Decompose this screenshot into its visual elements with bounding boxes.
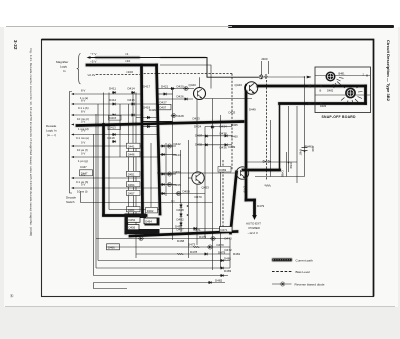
svg-text:D483: D483 bbox=[224, 269, 232, 273]
wire row y=282.5 bbox=[94, 282, 226, 284]
svg-text:Decade: Decade bbox=[66, 196, 76, 200]
svg-text:Switch: Switch bbox=[66, 200, 75, 204]
wire row y=176.5 bbox=[255, 176, 305, 178]
tunnel diode box D452 bbox=[128, 217, 141, 222]
svg-text:D472: D472 bbox=[225, 248, 233, 252]
diode chain on bus x=181: D466 bbox=[180, 204, 183, 208]
diode row D451/D453 bbox=[160, 173, 176, 175]
svg-text:D412: D412 bbox=[109, 98, 117, 102]
diode chain on bus x=181: D467 bbox=[180, 222, 183, 226]
wire row y=228.5 with D467 label bbox=[160, 228, 220, 230]
boxed label D457 bbox=[127, 190, 141, 195]
svg-text:0 V: 0 V bbox=[81, 152, 85, 156]
svg-text:AUTO EXT: AUTO EXT bbox=[246, 222, 261, 226]
svg-text:×1: ×1 bbox=[125, 52, 129, 56]
diode D415 on row c bbox=[112, 114, 116, 117]
svg-text:Q453: Q453 bbox=[202, 186, 210, 190]
svg-text:D441: D441 bbox=[128, 144, 135, 148]
transistor Q420 bbox=[194, 88, 206, 100]
bracket decade group bbox=[70, 92, 73, 194]
wire bus x=286.5 bbox=[286, 152, 288, 177]
svg-text:3-32: 3-32 bbox=[13, 40, 18, 50]
legend reverse biased diode bbox=[272, 283, 292, 285]
wire row y=99 bbox=[157, 98, 193, 100]
current path highlight (halo) bbox=[77, 65, 366, 236]
wire bus x=103.5 bbox=[103, 93, 105, 125]
diode on row y=126.5 mid bbox=[147, 125, 151, 128]
boxed label D441 bbox=[127, 143, 141, 148]
svg-text:D473: D473 bbox=[188, 243, 196, 247]
svg-text:D439: D439 bbox=[229, 145, 236, 149]
wire bus x=197 upper bbox=[196, 99, 198, 172]
tunnel diode box D407 bbox=[159, 104, 172, 110]
svg-text:−7 V: −7 V bbox=[90, 52, 97, 56]
wire row y=161.5 bbox=[247, 161, 298, 163]
svg-text:D482: D482 bbox=[327, 89, 334, 93]
svg-text:0 V: 0 V bbox=[81, 129, 85, 133]
board pin dots bbox=[320, 85, 322, 87]
diode row D457/D458 bbox=[160, 193, 205, 195]
svg-text:D421: D421 bbox=[161, 85, 169, 89]
wire T1 collector right bbox=[205, 98, 253, 100]
diode row D441/D442 bbox=[160, 145, 176, 147]
wire bus x=133 bbox=[132, 93, 134, 144]
wire bus x=205 bbox=[204, 127, 206, 239]
svg-text:D446: D446 bbox=[128, 153, 135, 157]
svg-text:D411: D411 bbox=[109, 87, 116, 91]
svg-text:−5 V: −5 V bbox=[90, 60, 97, 64]
white label box D471 on thick path bbox=[220, 227, 233, 233]
svg-text:Logic: Logic bbox=[60, 65, 68, 69]
wire x10 thin branch y=65 bbox=[160, 65, 211, 89]
svg-text:D464: D464 bbox=[145, 220, 152, 224]
wire row y=247 bbox=[106, 246, 230, 248]
tunnel diode box D456 bbox=[128, 225, 140, 230]
wire bus x=304.5 down to J490 bbox=[304, 77, 306, 177]
boxed label D415 bbox=[109, 115, 122, 120]
transistor Q443 bbox=[245, 82, 257, 94]
wire bus x=172.5 bbox=[172, 88, 174, 240]
wire long row y=202.5 bbox=[81, 202, 213, 204]
board entry arrowheads bbox=[307, 84, 312, 87]
svg-text:B481: B481 bbox=[339, 72, 346, 76]
svg-text:D428: D428 bbox=[177, 114, 185, 118]
current path highlight (core) bbox=[77, 65, 366, 236]
wire bus x=109 bbox=[108, 93, 110, 210]
transistor Q463 bbox=[236, 167, 248, 179]
svg-text:0.1 ms (e): 0.1 ms (e) bbox=[76, 136, 89, 140]
boxed label D413 bbox=[108, 125, 121, 130]
svg-text:R481: R481 bbox=[233, 252, 241, 256]
svg-text:D479: D479 bbox=[218, 250, 226, 254]
svg-text:D473: D473 bbox=[225, 237, 233, 241]
boxed label D462 bbox=[146, 208, 158, 213]
wire bus x=96 bbox=[95, 114, 97, 268]
svg-text:D452: D452 bbox=[129, 218, 136, 222]
svg-text:R487: R487 bbox=[299, 149, 303, 156]
label box D469 bbox=[218, 167, 231, 173]
wire row y=254 bbox=[136, 253, 230, 255]
svg-text:POWER: POWER bbox=[249, 226, 261, 230]
snap-off board box bbox=[315, 67, 371, 113]
tunnel diode box D466 bbox=[107, 244, 120, 250]
svg-text:D480: D480 bbox=[281, 171, 285, 178]
svg-text:SNAP-OFF BOARD: SNAP-OFF BOARD bbox=[322, 115, 357, 119]
board inner wire y=75.5 bbox=[315, 75, 370, 77]
wire row y=88.5 bbox=[157, 88, 194, 90]
svg-text:D482: D482 bbox=[215, 279, 223, 283]
svg-text:D436: D436 bbox=[220, 146, 228, 150]
wire hook bottom left bbox=[94, 283, 128, 289]
svg-text:D462: D462 bbox=[177, 217, 185, 221]
svg-text:2: 2 bbox=[363, 73, 365, 77]
svg-text:D478: D478 bbox=[190, 250, 198, 254]
svg-text:D455: D455 bbox=[174, 183, 182, 187]
svg-text:8 V: 8 V bbox=[81, 99, 85, 103]
svg-text:Reverse biased diode: Reverse biased diode bbox=[295, 282, 325, 286]
svg-text:Q420: Q420 bbox=[189, 83, 197, 87]
svg-text:0 V: 0 V bbox=[81, 183, 85, 187]
svg-text:∿0.4V: ∿0.4V bbox=[87, 73, 95, 77]
svg-text:Current path: Current path bbox=[296, 258, 313, 262]
svg-text:D470: D470 bbox=[217, 243, 225, 247]
wire bus x=197 lower bbox=[196, 185, 198, 246]
svg-text:D470: D470 bbox=[195, 195, 203, 199]
wire bus x=288.5 bbox=[288, 106, 290, 172]
svg-text:D442: D442 bbox=[174, 142, 182, 146]
svg-text:D407: D407 bbox=[160, 106, 167, 110]
thick path arrowhead at AUTO EXT bbox=[252, 215, 257, 220]
svg-text:D456: D456 bbox=[129, 226, 136, 230]
wire row y=94 top mid with diode bbox=[157, 93, 173, 95]
svg-text:D481: D481 bbox=[224, 257, 232, 261]
svg-text:Magnifier: Magnifier bbox=[56, 60, 68, 64]
svg-text:0 V: 0 V bbox=[81, 119, 85, 123]
svg-text:(a — i): (a — i) bbox=[47, 133, 56, 137]
svg-text:0 V: 0 V bbox=[81, 141, 85, 145]
svg-text:J400: J400 bbox=[261, 57, 268, 61]
svg-text:D444: D444 bbox=[174, 153, 182, 157]
wire bus x=230 bottom right bbox=[229, 239, 231, 269]
svg-text:D414: D414 bbox=[128, 87, 136, 91]
svg-text:D483: D483 bbox=[320, 104, 327, 108]
wire bus x=133.5 bbox=[133, 143, 135, 215]
svg-text:D449: D449 bbox=[249, 108, 256, 112]
board transistor with heat rays 1 bbox=[326, 72, 336, 82]
wire bus x=165 bbox=[165, 143, 167, 196]
diode below blob bbox=[138, 236, 144, 240]
svg-text:D471: D471 bbox=[221, 228, 228, 232]
svg-text:D454: D454 bbox=[128, 183, 135, 187]
wire bus x=93.5 bbox=[93, 134, 95, 276]
bias dashed vertical x=232 bbox=[231, 74, 233, 171]
bias dashed vertical x=223 bbox=[222, 160, 224, 232]
svg-text:J490: J490 bbox=[311, 146, 315, 152]
wire from node to board bbox=[263, 76, 311, 78]
svg-text:D438: D438 bbox=[220, 132, 228, 136]
svg-text:D462: D462 bbox=[147, 209, 154, 213]
svg-text:D423: D423 bbox=[193, 117, 201, 121]
wire x1 halftone overlay bbox=[95, 56, 140, 58]
resistor R above auto ext bbox=[265, 185, 271, 187]
svg-text:D468: D468 bbox=[177, 208, 185, 212]
svg-text:D467: D467 bbox=[175, 225, 183, 229]
svg-text:8 V: 8 V bbox=[81, 110, 85, 114]
svg-text:D416: D416 bbox=[128, 98, 136, 102]
node connector circle bbox=[259, 75, 263, 79]
diode chain on bus x=181: D462 bbox=[180, 213, 183, 217]
wire row y=121.5 bbox=[142, 121, 173, 123]
wire bus x=128.5 bbox=[128, 104, 130, 214]
boxed label D454 bbox=[127, 182, 141, 187]
svg-text:Fig. 3-41. Decade counter curr: Fig. 3-41. Decade counter current for 1X… bbox=[29, 49, 33, 237]
diode row D454/D455 bbox=[160, 184, 176, 186]
brace magnifier group bbox=[77, 54, 80, 84]
svg-text:D418: D418 bbox=[108, 136, 116, 140]
svg-text:D466: D466 bbox=[108, 246, 115, 250]
svg-text:D433: D433 bbox=[229, 111, 236, 115]
node dot x=304.5 bbox=[304, 151, 306, 153]
svg-text:C479: C479 bbox=[243, 186, 247, 193]
wire row y=260.5 bbox=[98, 260, 230, 262]
tunnel diode box D464 bbox=[144, 218, 157, 224]
boxed label D461 bbox=[127, 207, 141, 212]
wire T4 base bbox=[157, 172, 236, 174]
svg-text:D426: D426 bbox=[177, 95, 185, 99]
connector pins mid bbox=[263, 161, 271, 163]
wire bus x=136 bbox=[135, 93, 137, 259]
svg-text:×100: ×100 bbox=[126, 70, 133, 74]
wire bus x=212.5 bbox=[212, 99, 214, 271]
svg-text:D460: D460 bbox=[231, 135, 238, 139]
svg-text:D468: D468 bbox=[177, 239, 185, 243]
svg-text:In: In bbox=[63, 69, 66, 73]
connector J490 bbox=[302, 148, 308, 151]
svg-text:C447: C447 bbox=[80, 165, 87, 169]
legend bias level bbox=[272, 271, 292, 273]
wire row y=275.5 bbox=[94, 275, 229, 277]
wire bus x=297 bbox=[296, 106, 298, 183]
diode row D446/D444 bbox=[160, 154, 176, 156]
svg-text:Decade: Decade bbox=[46, 124, 57, 128]
board inner wire y=95 bbox=[315, 94, 370, 96]
wire bus x=181 chain bbox=[180, 203, 182, 232]
boxed label D451 bbox=[127, 171, 141, 176]
svg-text:10 ns (i): 10 ns (i) bbox=[77, 189, 87, 193]
svg-text:D475: D475 bbox=[199, 235, 207, 239]
node dot x=288.5 bbox=[288, 162, 290, 164]
svg-text:×10: ×10 bbox=[125, 59, 131, 63]
svg-text:Bias Level: Bias Level bbox=[296, 270, 311, 274]
schematic frame bbox=[42, 40, 374, 297]
svg-text:D459: D459 bbox=[289, 162, 293, 169]
svg-text:D451: D451 bbox=[128, 173, 135, 177]
wire bus x=98 bbox=[97, 104, 99, 261]
svg-text:D417: D417 bbox=[143, 85, 151, 89]
wire vertical x=279.5 midweight bbox=[279, 104, 281, 170]
svg-text:B: B bbox=[320, 89, 322, 93]
svg-text:D457: D457 bbox=[128, 192, 135, 196]
wire row y=268 bbox=[96, 267, 230, 269]
boxed label D446 bbox=[127, 152, 141, 157]
svg-text:D420: D420 bbox=[177, 85, 185, 89]
diode D428 bbox=[171, 114, 177, 118]
svg-text:D415: D415 bbox=[110, 116, 117, 120]
svg-text:D458: D458 bbox=[183, 190, 191, 194]
svg-text:−12.2 V: −12.2 V bbox=[248, 231, 258, 235]
svg-text:D479: D479 bbox=[257, 204, 265, 208]
bias dashed vertical x=262 bbox=[266, 80, 268, 180]
wire bus x=220.5 bbox=[220, 115, 222, 268]
svg-text:Q443: Q443 bbox=[235, 83, 243, 87]
transistor Q453 bbox=[192, 172, 204, 184]
board transistor with heat rays 2 bbox=[345, 88, 356, 99]
wire row y=238.5 with D475 D479 labels bbox=[96, 238, 230, 240]
wire row y=209.5 bbox=[109, 209, 160, 211]
svg-text:D469: D469 bbox=[219, 168, 226, 172]
svg-text:Ⓐ: Ⓐ bbox=[10, 293, 14, 298]
wire bus x=270.5 bbox=[270, 120, 272, 177]
wire bus x=180.5 bbox=[180, 150, 182, 203]
svg-text:D453: D453 bbox=[174, 170, 182, 174]
wire bus x=151 bbox=[150, 143, 152, 207]
svg-text:Circuit Description — Type 3B2: Circuit Description — Type 3B2 bbox=[386, 40, 391, 102]
wire bus x=188.5 bbox=[188, 140, 190, 258]
svg-text:1 μs (g): 1 μs (g) bbox=[78, 159, 88, 163]
svg-text:D427: D427 bbox=[160, 100, 168, 104]
legend current path bbox=[272, 258, 292, 261]
svg-text:D447: D447 bbox=[81, 172, 88, 176]
wire bus x=120 bbox=[119, 104, 121, 157]
svg-text:8 V: 8 V bbox=[81, 89, 85, 93]
svg-text:D429: D429 bbox=[149, 108, 156, 112]
svg-text:D424: D424 bbox=[194, 125, 202, 129]
black blob boxes on thick path bbox=[125, 214, 146, 219]
svg-text:Logic In: Logic In bbox=[46, 129, 57, 133]
